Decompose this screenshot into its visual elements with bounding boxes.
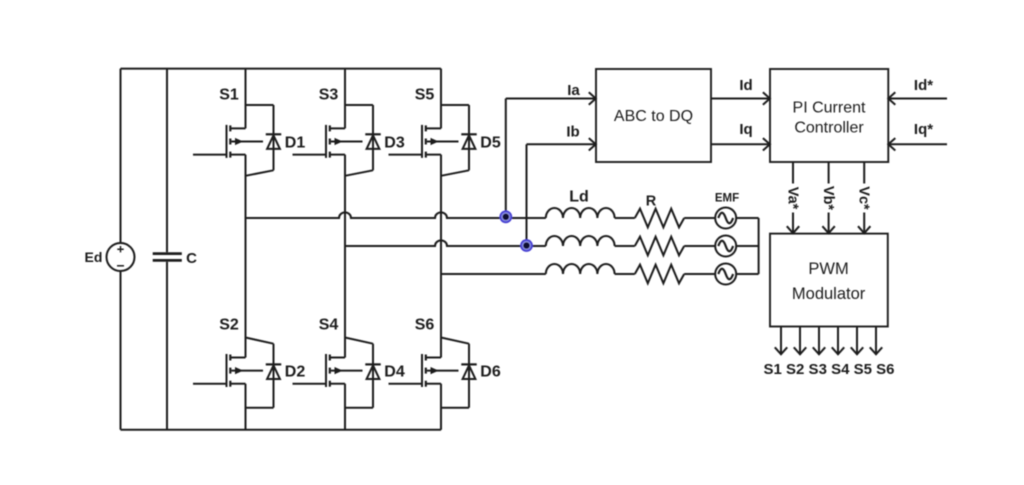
wire: Iq signal line [711, 143, 769, 145]
svg-text:ABC to DQ: ABC to DQ [614, 108, 693, 125]
resistor R (phase A) [635, 209, 684, 228]
wire: D2 anode link [246, 407, 274, 409]
wire: D6 anode link [441, 407, 469, 409]
wire: phase A Ld-R link [615, 217, 635, 219]
wire: Vb* command line (upper) [828, 162, 830, 184]
wire: Ia sense tap vertical [505, 99, 507, 219]
EMF source (phase A) [715, 208, 736, 229]
svg-text:Ed: Ed [85, 249, 103, 265]
svg-text:S1: S1 [219, 87, 239, 104]
EMF source (phase C) [715, 264, 736, 285]
wire: Vc* command line (upper) [863, 162, 865, 184]
wire: gate signal S3 output arrow [818, 327, 820, 354]
wire: S3 gate lead [293, 154, 327, 156]
diode D5 [461, 133, 476, 135]
wire: S2 source vertical [245, 384, 247, 430]
svg-text:Id*: Id* [914, 77, 933, 94]
wire: D1 anode diagonal [246, 170, 274, 176]
diode D2 [266, 363, 281, 365]
svg-text:EMF: EMF [715, 192, 739, 204]
wire: D5 branch vertical [468, 105, 470, 170]
svg-text:D6: D6 [480, 364, 501, 381]
wire: leg3 drain vertical (S5) [440, 69, 442, 129]
transistor S3 (MOSFET) [326, 125, 363, 158]
wire: S6 source vertical [440, 384, 442, 430]
wire: gate signal S2 output arrow [799, 327, 801, 354]
wire: leg1 midpoint vertical [245, 155, 247, 358]
svg-text:S2: S2 [219, 317, 239, 334]
svg-text:Ld: Ld [569, 188, 589, 205]
capacitor C [153, 252, 182, 255]
wire: D2 branch vertical [273, 344, 275, 408]
svg-text:PI Current: PI Current [793, 100, 866, 117]
wire: phase C line (leg3 to Ld) [441, 273, 546, 275]
transistor S1 (MOSFET) [227, 125, 264, 158]
wire: gate signal S6 output arrow [875, 327, 877, 354]
wire: DC bus bottom rail [121, 429, 442, 431]
svg-text:Vc*: Vc* [856, 186, 872, 210]
wire: DC bus top rail [121, 68, 442, 70]
svg-text:S4: S4 [319, 317, 339, 334]
wire: Va* command line (upper) [792, 162, 794, 184]
wire: gate signal S4 output arrow [837, 327, 839, 354]
junction node A (blue dot) [499, 210, 512, 223]
wire: S4 source vertical [344, 384, 346, 430]
wire: D6 branch vertical [468, 344, 470, 408]
inductor Ld (phase C) [546, 264, 615, 274]
wire: neutral bus vertical [758, 218, 760, 274]
wire: phase C R-EMF link [684, 273, 715, 275]
wire: Id signal line [711, 98, 769, 100]
wire: S6 drain to D6 cathode diagonal [441, 338, 469, 344]
svg-text:PWM: PWM [808, 260, 848, 278]
svg-text:Ib: Ib [566, 123, 579, 140]
wire: S2 gate lead [193, 383, 227, 385]
svg-text:Iq*: Iq* [914, 121, 933, 138]
wire: Ib sense tap vertical [526, 144, 528, 246]
svg-text:D5: D5 [480, 135, 501, 152]
svg-text:S5: S5 [415, 87, 435, 104]
wire: Va* command line (lower, into PWM) [792, 213, 794, 233]
wire: capacitor branch lower [166, 262, 168, 430]
resistor R (phase C) [635, 265, 684, 284]
wire: phase A EMF to neutral bus [736, 217, 758, 219]
resistor R (phase B) [635, 237, 684, 256]
wire: gate signal S5 output arrow [856, 327, 858, 354]
wire: phase B Ld-R link [615, 245, 635, 247]
wire: D4 anode link [345, 407, 373, 409]
wire: capacitor branch upper [166, 69, 168, 253]
wire: Ib signal line [527, 143, 596, 145]
wire: S5 gate lead [389, 154, 423, 156]
svg-text:Vb*: Vb* [820, 186, 836, 211]
wire: S4 gate lead [293, 383, 327, 385]
wire: S6 gate lead [389, 383, 423, 385]
svg-text:Ia: Ia [567, 82, 580, 99]
transistor S4 (MOSFET) [326, 354, 363, 387]
wire: D3 branch vertical [372, 105, 374, 170]
wire: S3 drain to D3 cathode link [345, 104, 373, 106]
wire: Id* reference line [889, 98, 947, 100]
wire: Ed branch lower [120, 271, 122, 430]
wire: phase A R-EMF link [684, 217, 715, 219]
transistor S6 (MOSFET) [422, 354, 459, 387]
svg-text:D2: D2 [285, 364, 306, 381]
block: PWM Modulator [770, 234, 888, 327]
wire: D4 branch vertical [372, 344, 374, 408]
block: PI Current Controller [770, 69, 888, 162]
wire: S4 drain to D4 cathode diagonal [345, 338, 373, 344]
transistor S5 (MOSFET) [422, 125, 459, 158]
inductor Ld (phase B) [546, 236, 615, 246]
svg-text:D3: D3 [384, 135, 405, 152]
svg-text:Modulator: Modulator [792, 285, 866, 303]
voltage source Ed [107, 243, 135, 271]
wire: phase C Ld-R link [615, 273, 635, 275]
svg-text:R: R [646, 193, 657, 209]
wire: gate signal S1 output arrow [780, 327, 782, 354]
wire: D5 anode diagonal [441, 170, 469, 176]
EMF source (phase B) [715, 236, 736, 257]
svg-text:Va*: Va* [784, 187, 800, 210]
wire: leg1 drain vertical (S1) [245, 69, 247, 129]
svg-text:C: C [186, 250, 197, 267]
block: ABC to DQ [596, 69, 711, 162]
wire: phase C EMF to neutral bus [736, 273, 758, 275]
diode D1 [266, 133, 281, 135]
svg-text:S6: S6 [415, 317, 435, 334]
svg-text:D4: D4 [384, 364, 405, 381]
wire: S2 drain to D2 cathode diagonal [246, 338, 274, 344]
svg-text:Id: Id [739, 77, 752, 94]
svg-text:Iq: Iq [739, 121, 752, 138]
inductor Ld (phase A) [546, 208, 615, 218]
wire: phase A line (leg1 to Ld) [246, 212, 546, 218]
wire: Vb* command line (lower, into PWM) [828, 213, 830, 233]
junction node B (blue dot) [520, 239, 533, 252]
wire: D1 branch vertical [273, 105, 275, 170]
wire: phase B EMF to neutral bus [736, 245, 758, 247]
wire: S5 drain to D5 cathode link [441, 104, 469, 106]
svg-text:D1: D1 [285, 135, 306, 152]
wire: leg2 midpoint vertical [344, 155, 346, 358]
svg-text:S3: S3 [319, 87, 339, 104]
wire: Ia signal line [506, 98, 595, 100]
svg-text:Controller: Controller [794, 119, 864, 136]
wire: Vc* command line (lower, into PWM) [863, 213, 865, 233]
svg-text:S1 S2 S3 S4 S5 S6: S1 S2 S3 S4 S5 S6 [764, 361, 895, 378]
wire: Iq* reference line [889, 143, 947, 145]
transistor S2 (MOSFET) [227, 354, 264, 387]
wire: phase B R-EMF link [684, 245, 715, 247]
diode D6 [461, 363, 476, 365]
wire: S1 drain to D1 cathode link [246, 104, 274, 106]
diode D3 [365, 133, 380, 135]
diode D4 [365, 363, 380, 365]
wire: leg3 midpoint vertical [440, 155, 442, 358]
wire: S1 gate lead [193, 154, 227, 156]
wire: phase B line (leg2 to Ld) [345, 240, 546, 246]
wire: Ed branch upper [120, 69, 122, 243]
wire: leg2 drain vertical (S3) [344, 69, 346, 129]
wire: D3 anode diagonal [345, 170, 373, 176]
